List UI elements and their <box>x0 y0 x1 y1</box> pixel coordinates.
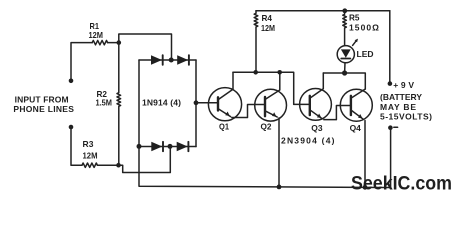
wire input top lead to R1 <box>71 43 92 81</box>
junction dot bridge bottom-left <box>137 144 142 149</box>
wire bridge left column and bottom rail <box>139 60 391 188</box>
wire node B to bottom bridge input jog <box>119 147 171 173</box>
svg-text:R4: R4 <box>262 13 273 23</box>
diode D4 <box>177 142 189 151</box>
wire top supply rail <box>256 10 390 12</box>
transistor Q2 <box>255 72 287 121</box>
transistor Q3 <box>300 73 332 120</box>
node C junction dot bridge output to Q1 base <box>194 100 199 105</box>
svg-text:R5: R5 <box>349 12 360 22</box>
svg-text:PHONE LINES: PHONE LINES <box>13 104 74 114</box>
wire bottom diode row <box>139 146 196 148</box>
wire Q1 emitter to Q2 base <box>232 105 265 118</box>
resistor R3 <box>82 163 97 167</box>
svg-text:Q2: Q2 <box>261 121 272 131</box>
wire R1 to node A <box>108 42 119 44</box>
wire battery plus lead <box>389 11 391 84</box>
wire input bottom lead to R3 <box>71 127 82 165</box>
svg-text:+9V: +9V <box>393 80 414 90</box>
terminal input top <box>69 79 74 84</box>
node B junction dot R2/R3 <box>116 163 121 168</box>
svg-text:5-15VOLTS): 5-15VOLTS) <box>380 111 432 121</box>
svg-text:1.5M: 1.5M <box>96 97 113 107</box>
wire bridge right column <box>195 60 197 147</box>
svg-text:LED: LED <box>357 49 374 59</box>
svg-text:R3: R3 <box>83 139 94 149</box>
junction dot R4 at collector rail <box>253 70 258 75</box>
junction dot top bridge center <box>169 58 174 63</box>
svg-text:12M: 12M <box>89 30 104 40</box>
transistor Q1 <box>208 72 241 121</box>
svg-text:12M: 12M <box>261 23 275 33</box>
node A junction dot R1/R2 <box>117 40 122 45</box>
diode D3 <box>151 142 163 151</box>
terminal input bottom <box>69 125 74 130</box>
svg-text:1500Ω: 1500Ω <box>349 23 379 33</box>
wire Q2 emitter down to bottom rail <box>278 118 280 187</box>
resistor R1 <box>92 40 107 44</box>
wire Q3/Q4 collector rail <box>323 73 365 89</box>
wire top diode row <box>139 59 196 61</box>
junction dot Q2 collector at rail <box>277 70 282 75</box>
transistor Q4 <box>340 89 372 121</box>
junction dot LED at Q3/Q4 rail <box>342 70 347 75</box>
diode D2 <box>177 55 189 65</box>
svg-text:1N914 (4): 1N914 (4) <box>142 98 181 108</box>
wire Q3 emitter to Q4 base <box>324 106 351 120</box>
terminal battery plus <box>388 81 393 86</box>
terminal battery minus <box>388 125 393 130</box>
resistor R4 <box>254 11 258 73</box>
wire Q1 base <box>196 102 218 104</box>
svg-text:Q4: Q4 <box>350 123 362 133</box>
wire R3 to node B <box>97 164 118 166</box>
junction dot bottom bridge center <box>168 144 173 149</box>
wire Q1/Q2 collector rail to Q3 base <box>233 72 310 104</box>
svg-text:SeekIC.com: SeekIC.com <box>351 173 452 195</box>
svg-text:12M: 12M <box>83 150 98 160</box>
svg-text:2N3904 (4): 2N3904 (4) <box>281 136 335 146</box>
diode D1 <box>151 55 163 65</box>
resistor R2 <box>117 43 121 166</box>
wire node A to top bridge input <box>119 34 172 60</box>
junction dot R5 at top rail <box>342 8 347 13</box>
svg-text:Q3: Q3 <box>311 123 323 133</box>
LED light arrow <box>353 39 358 46</box>
junction dot Q2 emitter at rail <box>277 185 282 190</box>
wire Q4 emitter down to bottom rail <box>364 121 366 188</box>
resistor R5 <box>343 11 347 46</box>
svg-text:(BATTERY: (BATTERY <box>380 92 422 102</box>
LED D5 <box>337 46 354 73</box>
junction dot Q4 emitter at rail <box>363 185 368 190</box>
label minus sign <box>394 126 398 128</box>
svg-text:Q1: Q1 <box>219 122 229 132</box>
